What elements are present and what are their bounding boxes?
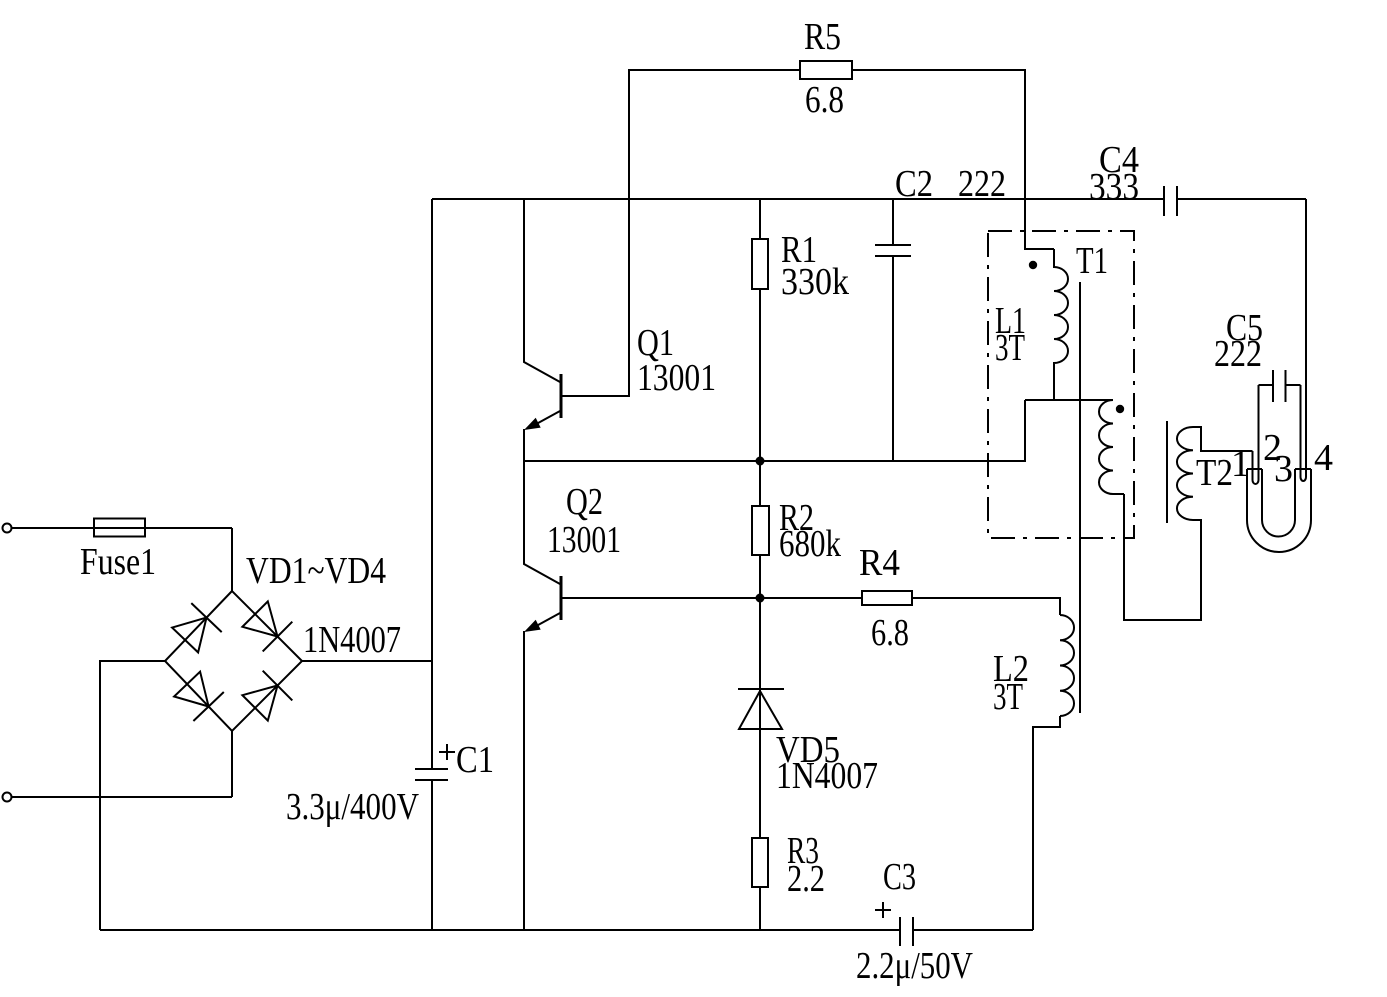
svg-text:T2: T2 [1196,452,1233,494]
winding T2 [1177,427,1193,520]
diode VD1 top-left arm [172,603,222,652]
transistor Q1 emitter with arrow [529,411,560,428]
svg-text:Fuse1: Fuse1 [80,541,156,583]
wire R3 bottom to rail [759,887,761,930]
wire fuse corner down to bridge top [231,528,233,591]
wire R5 right to L1 top [852,70,1054,249]
svg-text:R4: R4 [859,542,900,584]
svg-text:2.2: 2.2 [787,858,825,900]
transistor Q2 emitter with arrow [529,613,560,630]
inductor L2 winding [1060,615,1074,716]
svg-text:222: 222 [958,163,1006,205]
wire Q2 base to node B [561,597,760,599]
svg-text:680k: 680k [779,523,841,565]
label C3 plus [875,902,891,918]
svg-text:3.3μ/400V: 3.3μ/400V [286,786,419,828]
svg-text:6.8: 6.8 [805,79,844,121]
svg-text:13001: 13001 [637,357,716,399]
lamp tube inner wall [1262,469,1295,537]
transistor Q2 collector wire [524,461,560,584]
wire pin2 to C5 left [1259,384,1274,386]
wire lower terminal to bridge bottom [12,796,233,798]
svg-text:222: 222 [1214,333,1262,375]
diode VD3 bottom-left arm [174,672,224,721]
resistor R5 [800,61,852,79]
wire Q1 emitter down [523,429,525,461]
resistor R3 [752,838,768,887]
wire L1 bottom / secondary top tie [1025,399,1113,401]
junction node A [756,457,765,466]
svg-text:333: 333 [1089,166,1139,208]
svg-text:1N4007: 1N4007 [776,755,878,797]
svg-text:13001: 13001 [547,519,621,561]
junction node B [756,594,765,603]
wire bridge left vertex to bottom rail [100,661,165,930]
wire R2 bottom to node B [759,555,761,598]
svg-text:R5: R5 [804,16,841,58]
svg-text:1: 1 [1231,443,1250,485]
capacitor C5 [1273,370,1286,402]
wire C5 right to pin3 [1286,384,1301,386]
wire main top rail [432,198,1306,200]
capacitor C1 [415,769,448,780]
wire node to R2 [759,461,761,506]
transistor Q1 base bar [560,374,563,418]
capacitor C2 [875,245,911,256]
terminal bottom-left [3,793,12,802]
wire secondary bottom to T2 bottom [1124,494,1201,620]
wire DC+ rail left vertical (rail corner down through C1) [431,199,433,930]
svg-text:VD1~VD4: VD1~VD4 [246,550,386,592]
capacitor C4 [1164,186,1177,216]
svg-text:C2: C2 [895,163,933,205]
wire T2 top to lamp pin1 [1193,427,1253,451]
transformer T1 boundary box [988,231,1134,538]
wire rail to R1 [759,199,761,239]
wire bridge right vertex to C1 line [302,660,432,662]
fuse Fuse1 [94,519,145,537]
wire rail to C2 [892,199,894,245]
resistor R4 [862,591,912,605]
bridge diamond VD1~VD4 [165,591,302,731]
svg-text:330k: 330k [781,261,849,303]
svg-text:3T: 3T [993,676,1023,718]
T2 core bar [1166,421,1168,523]
label C1 plus [439,744,455,760]
wire mid node (Q1 emitter / Q2 collector row) [524,400,1025,461]
wire R4 right to L2 top [912,598,1060,615]
lamp left filament hairpin (pins 1-2) [1253,385,1259,484]
svg-text:Q2: Q2 [566,481,603,523]
svg-text:3: 3 [1274,448,1293,490]
wire L2 bottom to bottom rail right end [1033,716,1060,930]
svg-text:C3: C3 [883,856,916,898]
node L1 phase dot [1029,261,1037,269]
wire R1 bottom to node [759,289,761,461]
transistor Q2 base bar [560,576,563,620]
svg-text:T1: T1 [1076,240,1108,282]
wire terminal to fuse to corner [12,527,233,529]
wire Q1 base to R5 left [561,70,800,396]
diode VD5 [738,689,784,729]
resistor R2 [752,506,769,555]
wire node B down to VD5 [759,598,761,838]
lamp tube outer wall [1247,469,1311,552]
capacitor C3 [900,917,913,946]
svg-text:1N4007: 1N4007 [303,619,401,661]
lamp right filament hairpin (pins 3-4) [1301,199,1307,481]
svg-text:3T: 3T [995,327,1025,369]
inductor L1 winding [1054,249,1068,400]
wire bottom rail [100,929,1033,931]
transistor Q1 collector wire [524,199,560,382]
diode VD2 top-right arm [242,601,292,651]
wire Q2 emitter to bottom rail [523,631,525,930]
wire C2 bottom to mid wire [892,256,894,461]
resistor R1 [752,239,768,289]
node secondary phase dot [1116,405,1124,413]
svg-text:6.8: 6.8 [871,612,909,654]
svg-text:4: 4 [1314,437,1333,479]
T1 core line [1079,282,1081,713]
diode VD4 bottom-right arm [242,671,292,721]
svg-text:2.2μ/50V: 2.2μ/50V [856,945,973,987]
lamp leg top caps [1247,468,1311,470]
wire bridge bottom vertex down [231,731,233,797]
wire node B to R4 [760,597,862,599]
winding T1 secondary [1099,400,1124,494]
terminal top-left [3,524,12,533]
svg-text:C1: C1 [456,739,494,781]
